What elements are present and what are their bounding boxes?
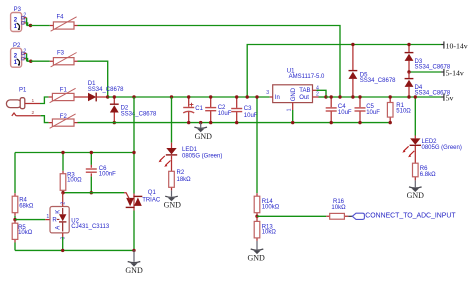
wire R4/R5 node to U2 pin R: [15, 219, 45, 221]
junction ground tap under C1: [199, 121, 202, 124]
svg-text:C1: C1: [195, 106, 203, 112]
fuse F1: [50, 87, 76, 102]
wire F3 to input rail (drops at x=107.7): [78, 61, 108, 97]
junction LED1 riser: [170, 95, 173, 98]
junction R4/R5 node: [13, 218, 16, 221]
svg-text:C3: C3: [244, 106, 252, 112]
wire P1 pin1 to F1: [40, 97, 49, 104]
svg-text:68kΩ: 68kΩ: [19, 204, 34, 210]
junction F4 riser on 5v rail: [338, 95, 341, 98]
svg-text:10-14v: 10-14v: [446, 41, 468, 50]
LED1: [159, 143, 223, 167]
wire P3 pin1 elbow: [24, 22, 26, 24]
capacitor C6: [86, 153, 116, 193]
U2 pin 3 (A): [62, 233, 64, 237]
diode D2: [110, 97, 157, 123]
svg-text:SS34_C8678: SS34_C8678: [121, 111, 157, 117]
resistor R5: [12, 220, 33, 251]
diode D3: [405, 45, 451, 73]
svg-text:Q1: Q1: [148, 190, 157, 196]
transistor Q1 TRIAC: [124, 190, 161, 210]
svg-text:SS34_C8678: SS34_C8678: [88, 87, 124, 93]
svg-text:Out: Out: [299, 95, 309, 101]
ground symbol under R6: [407, 180, 425, 200]
U1 pin 1 (GND): [292, 103, 294, 110]
fuse F2: [50, 114, 76, 128]
diode D5: [349, 45, 397, 98]
junction U1 output node: [324, 95, 327, 98]
svg-text:10uF: 10uF: [218, 111, 232, 117]
net flag 5-14v: [441, 68, 464, 77]
left circuit bottom rail: [15, 249, 134, 251]
svg-text:In: In: [275, 95, 280, 101]
svg-text:5v: 5v: [446, 93, 454, 102]
net flag 5v: [441, 93, 453, 102]
svg-text:2: 2: [61, 202, 67, 205]
ground symbol under R13: [248, 241, 266, 262]
svg-text:1: 1: [286, 108, 292, 111]
ground symbol under R2: [164, 190, 182, 209]
shunt regulator U2 CJ431_C3113: [50, 207, 110, 233]
svg-text:LED1: LED1: [182, 147, 198, 153]
wire gate node (R3/C6/U2-K to TRIAC gate): [63, 192, 124, 194]
svg-text:F1: F1: [60, 87, 68, 93]
fuse F3: [51, 51, 77, 67]
junction P2 output node: [29, 60, 32, 63]
capacitor C3: [231, 97, 258, 123]
svg-text:F4: F4: [57, 15, 65, 21]
resistor R14: [254, 193, 280, 216]
svg-text:GND: GND: [195, 132, 213, 141]
svg-text:6.8kΩ: 6.8kΩ: [420, 172, 436, 178]
U1 pin 3 (In): [270, 96, 273, 98]
svg-text:0805G (Green): 0805G (Green): [182, 153, 222, 159]
diode D4: [405, 72, 451, 97]
svg-text:CONNECT_TO_ADC_INPUT: CONNECT_TO_ADC_INPUT: [365, 213, 456, 220]
svg-text:2: 2: [32, 110, 35, 116]
resistor R6: [413, 149, 437, 180]
resistor R16: [326, 199, 348, 219]
net flag 10-14v: [441, 41, 468, 50]
wire TRIAC riser x=134: [133, 97, 135, 250]
svg-text:TRIAC: TRIAC: [142, 197, 161, 203]
U1 pin 4 (TAB): [313, 89, 317, 91]
U1 pin 2 (Out): [313, 96, 319, 98]
resistor R4: [12, 153, 34, 220]
capacitor C4: [326, 97, 352, 123]
svg-text:P1: P1: [19, 88, 27, 94]
wire riser to R14 at x=257: [256, 97, 258, 193]
svg-text:510Ω: 510Ω: [396, 109, 411, 115]
resistor R1: [387, 97, 411, 123]
junction TRIAC riser: [132, 95, 135, 98]
svg-text:1: 1: [46, 214, 49, 220]
svg-text:GND: GND: [125, 266, 143, 275]
svg-text:1: 1: [32, 98, 35, 104]
svg-text:GND: GND: [407, 191, 425, 200]
net flag CONNECT_TO_ADC_INPUT: [348, 213, 456, 220]
junction F3 riser on input rail: [106, 95, 109, 98]
svg-text:10kΩ: 10kΩ: [262, 230, 277, 236]
junction D2 bottom: [113, 121, 116, 124]
left circuit top rail: [15, 152, 134, 154]
svg-text:10uF: 10uF: [244, 113, 258, 119]
svg-text:TAB: TAB: [299, 88, 310, 94]
wire 5v rail y=97: [326, 96, 441, 98]
wire P2 pin2 elbow: [24, 52, 27, 54]
wire P3 pin2 elbow: [24, 17, 27, 19]
svg-text:10uF: 10uF: [366, 110, 380, 116]
wire F4 to 5v rail (long top wire, drops at x=340): [78, 26, 341, 98]
svg-text:5-14v: 5-14v: [446, 68, 464, 77]
diode D1: [78, 81, 125, 101]
U2 pin 2 (K): [62, 193, 64, 207]
svg-text:0805G (Green): 0805G (Green): [422, 145, 462, 151]
op-amp regulator U1 AMS1117-5.0: [273, 68, 325, 102]
svg-text:10uF: 10uF: [338, 110, 352, 116]
resistor R3: [60, 153, 82, 193]
svg-text:R: R: [52, 217, 57, 223]
svg-text:AMS1117-5.0: AMS1117-5.0: [289, 74, 325, 80]
svg-text:100Ω: 100Ω: [67, 178, 82, 184]
svg-text:SS34_C8678: SS34_C8678: [360, 78, 396, 84]
resistor R13: [254, 216, 276, 241]
svg-text:100kΩ: 100kΩ: [262, 205, 280, 211]
ground symbol left circuit: [125, 250, 143, 275]
connector P1 (barrel jack): [6, 88, 40, 117]
svg-text:F3: F3: [57, 51, 65, 57]
wire divider node to R16: [257, 215, 326, 217]
svg-text:CJ431_C3113: CJ431_C3113: [71, 224, 110, 230]
svg-text:GND: GND: [248, 253, 266, 262]
capacitor C5: [355, 97, 381, 123]
svg-text:100nF: 100nF: [99, 172, 116, 178]
junction D2 top: [113, 95, 116, 98]
wire P1 pin2 to F2: [41, 116, 49, 123]
wire P2 pin1 elbow: [24, 58, 26, 60]
wire P3 to F4: [31, 25, 50, 27]
wire P2 to F3: [31, 60, 50, 62]
junction R14/R13/R16 node: [255, 215, 258, 218]
svg-text:R2: R2: [177, 170, 185, 176]
wire LED1 riser: [171, 97, 173, 143]
svg-text:C2: C2: [218, 105, 226, 111]
svg-text:A: A: [55, 226, 61, 230]
junction P3 output node: [29, 24, 32, 27]
svg-text:K: K: [55, 210, 61, 214]
wire 5-14v rail: [409, 71, 441, 73]
capacitor C2: [205, 97, 232, 123]
svg-text:10kΩ: 10kΩ: [18, 230, 33, 236]
wire input rail y=97: [108, 96, 270, 98]
svg-text:3: 3: [266, 90, 269, 96]
svg-text:GND: GND: [164, 200, 182, 209]
svg-text:GND: GND: [291, 87, 297, 101]
wire ground rail y=122.6: [78, 122, 391, 124]
ground symbol under C1: [194, 123, 212, 142]
wire riser to 10-14v rail at x=247.2: [247, 45, 441, 98]
fuse F4: [51, 15, 77, 32]
capacitor C1: [183, 97, 203, 123]
connector P3: [11, 7, 27, 32]
LED2: [402, 97, 462, 157]
connector P2: [11, 43, 27, 67]
resistor R2: [169, 159, 191, 190]
svg-text:18kΩ: 18kΩ: [177, 177, 192, 183]
svg-text:3: 3: [61, 237, 67, 240]
svg-text:10kΩ: 10kΩ: [331, 205, 346, 211]
